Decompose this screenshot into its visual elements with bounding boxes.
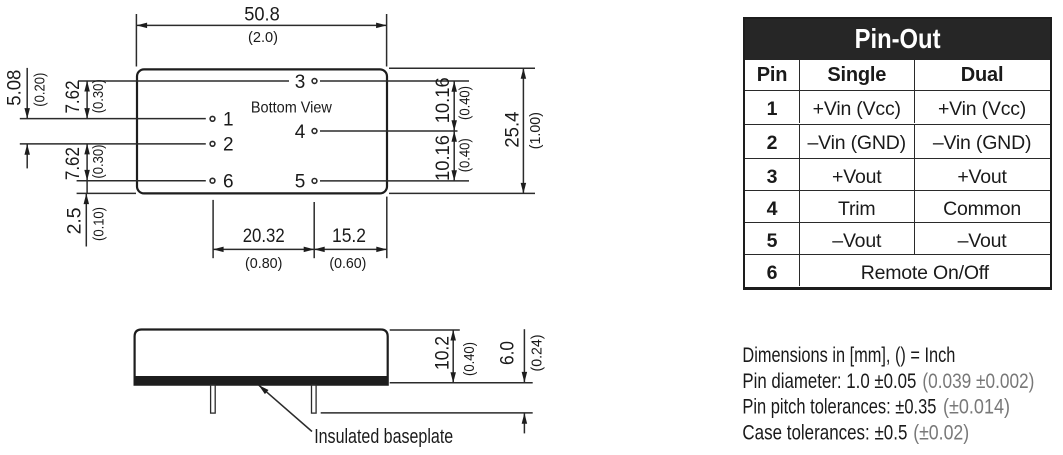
svg-text:25.4: 25.4	[502, 111, 523, 147]
svg-text:(0.80): (0.80)	[245, 255, 282, 272]
svg-text:Pin pitch tolerances: ±0.35: Pin pitch tolerances: ±0.35	[742, 396, 936, 419]
svg-text:(0.40): (0.40)	[457, 86, 474, 120]
svg-text:(1.00): (1.00)	[527, 112, 544, 149]
svg-text:(0.60): (0.60)	[329, 255, 366, 272]
svg-text:(0.10): (0.10)	[90, 207, 107, 241]
svg-text:7.62: 7.62	[63, 81, 84, 114]
svg-text:5.08: 5.08	[5, 70, 26, 106]
svg-text:(±0.014): (±0.014)	[943, 396, 1010, 419]
svg-text:(0.24): (0.24)	[528, 334, 545, 371]
svg-text:(±0.02): (±0.02)	[913, 421, 969, 444]
svg-text:1: 1	[223, 109, 234, 130]
svg-text:(2.0): (2.0)	[248, 29, 278, 46]
svg-text:10.2: 10.2	[432, 336, 453, 370]
svg-text:4: 4	[295, 122, 306, 143]
svg-text:5: 5	[295, 172, 306, 193]
svg-text:(0.30): (0.30)	[90, 79, 107, 113]
svg-text:Bottom View: Bottom View	[251, 100, 332, 117]
svg-text:2: 2	[223, 135, 234, 156]
svg-text:10.16: 10.16	[433, 77, 454, 123]
svg-text:Pin diameter: 1.0 ±0.05: Pin diameter: 1.0 ±0.05	[742, 370, 916, 393]
svg-text:(0.30): (0.30)	[90, 145, 107, 179]
svg-text:Case tolerances: ±0.5: Case tolerances: ±0.5	[742, 421, 907, 444]
svg-text:(0.039 ±0.002): (0.039 ±0.002)	[922, 370, 1034, 393]
svg-text:3: 3	[295, 72, 306, 93]
svg-text:(0.40): (0.40)	[461, 342, 478, 376]
svg-text:2.5: 2.5	[64, 207, 85, 234]
svg-text:Dimensions in [mm], () = Inch: Dimensions in [mm], () = Inch	[742, 344, 955, 367]
svg-text:50.8: 50.8	[244, 5, 280, 26]
svg-text:6.0: 6.0	[498, 341, 519, 365]
svg-text:15.2: 15.2	[332, 226, 366, 247]
svg-text:7.62: 7.62	[63, 147, 84, 180]
svg-text:6: 6	[223, 172, 234, 193]
svg-text:10.16: 10.16	[433, 135, 454, 181]
svg-text:(0.20): (0.20)	[31, 73, 48, 107]
svg-text:(0.40): (0.40)	[457, 138, 474, 172]
svg-text:Insulated baseplate: Insulated baseplate	[314, 426, 453, 448]
svg-text:20.32: 20.32	[243, 226, 285, 247]
